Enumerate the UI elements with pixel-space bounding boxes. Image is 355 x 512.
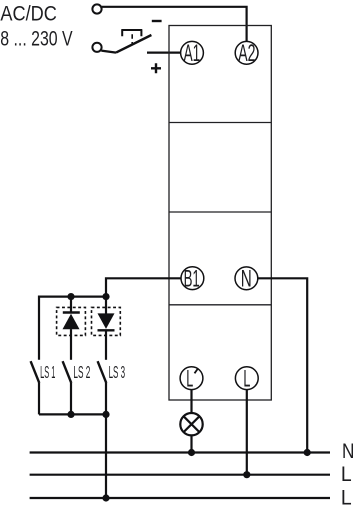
terminal A2 (235, 40, 258, 67)
node LS3 on switch bus (102, 411, 109, 418)
switch LS2 (63, 361, 91, 383)
node at diode D2 branch (102, 293, 109, 300)
wire LS2 to switch bus (70, 383, 72, 415)
svg-text:LS 1: LS 1 (40, 362, 55, 382)
wire LS1 to switch bus (38, 383, 40, 415)
switch LS3 (98, 361, 126, 383)
svg-text:L: L (341, 463, 352, 486)
svg-text:N: N (342, 440, 354, 463)
svg-text:L: L (186, 366, 193, 393)
wire from diode D1 to switch LS2 (70, 329, 72, 360)
svg-text:A2: A2 (238, 40, 255, 67)
wire stub from plus terminal to push-button (101, 51, 116, 53)
N bus line (30, 451, 330, 453)
plus polarity label (151, 63, 161, 73)
dashed box around diode D1 (57, 307, 86, 335)
wire into diode D2 (105, 297, 107, 314)
branch wire to LS switches (39, 297, 106, 360)
svg-text:LS 2: LS 2 (73, 362, 90, 382)
dashed box around diode D2 (92, 307, 121, 335)
node LS2 on switch bus (67, 411, 74, 418)
svg-text:AC/DC: AC/DC (0, 2, 57, 26)
wire from push-button to A1 (147, 51, 181, 53)
terminal L' (switched live output) (180, 366, 203, 393)
svg-text:L: L (341, 487, 352, 510)
svg-text:8 ... 230 V: 8 ... 230 V (0, 26, 73, 50)
node N wire on N bus (304, 449, 311, 456)
switch bus wire (39, 413, 106, 415)
lamp E1 (180, 413, 202, 435)
wire L' to lamp (190, 390, 192, 413)
L bus line 2 (30, 497, 330, 499)
wire N terminal to N bus (258, 278, 307, 452)
supply terminal (minus side) (92, 4, 101, 13)
svg-text:B1: B1 (184, 266, 200, 293)
wire into diode D1 (70, 297, 72, 312)
node LS branch on L bus (102, 494, 109, 501)
push-button S (momentary contact) (116, 30, 151, 53)
terminal N (235, 266, 258, 293)
wire lamp to N bus (190, 435, 192, 452)
wire from minus terminal to A2 (102, 7, 247, 41)
node at diode D1 branch (67, 293, 74, 300)
node lamp on N bus (188, 449, 195, 456)
supply terminal (plus side) (92, 43, 101, 52)
diode D2 (cathode down) (98, 313, 115, 330)
terminal L (235, 366, 258, 393)
L bus line 1 (30, 474, 330, 476)
terminal B1 (181, 266, 204, 293)
wire L terminal to L bus (246, 390, 248, 475)
svg-text:LS 3: LS 3 (109, 362, 126, 382)
svg-text:A1: A1 (184, 40, 201, 67)
wire from diode D2 to switch LS3 (105, 330, 107, 360)
minus polarity label (152, 20, 162, 22)
device outline (timer relay module) (169, 26, 271, 401)
supply voltage label AC/DC 8...230V (0, 2, 73, 51)
svg-text:N: N (241, 266, 252, 293)
diode D1 (cathode up) (63, 313, 80, 330)
switch LS1 (31, 361, 56, 383)
node L terminal on L bus (243, 471, 250, 478)
wire LS3 to switch bus and L bus (105, 383, 107, 498)
terminal A1 (181, 40, 204, 67)
svg-text:L: L (243, 366, 250, 393)
wire from B1 to pushbutton branch node (106, 278, 181, 296)
